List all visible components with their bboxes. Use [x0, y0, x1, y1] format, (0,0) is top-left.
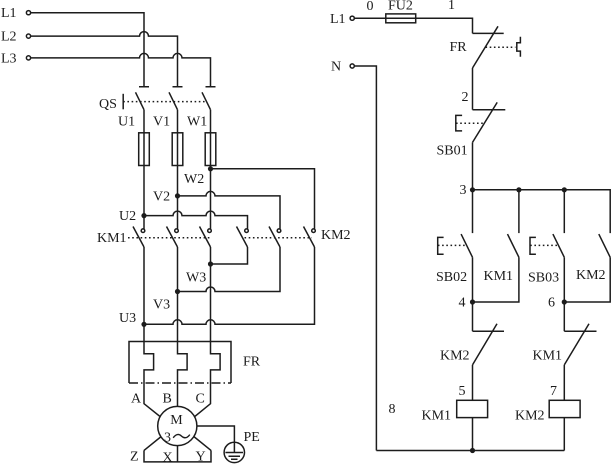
terminal L1 (control): [330, 12, 354, 27]
node V2: [153, 190, 180, 205]
svg-text:2: 2: [462, 90, 469, 105]
svg-text:KM1: KM1: [533, 348, 563, 363]
svg-text:U1: U1: [118, 115, 135, 130]
svg-text:Z: Z: [130, 449, 139, 464]
KM2 main contact pole 3: [304, 227, 316, 248]
wire SB01 to node 3: [472, 142, 474, 189]
motor skirt frame: [144, 450, 211, 462]
thermal relay FR heater box: [129, 342, 231, 384]
wire SB03 to node 6: [563, 257, 565, 302]
switch QS pole 1: [136, 87, 150, 110]
wire W2 to KM2 pole 3: [211, 169, 315, 229]
node W2: [184, 166, 213, 187]
node 4: [459, 295, 476, 310]
svg-text:PE: PE: [244, 430, 260, 445]
wire column V with FR heater jog straight to motor: [178, 247, 188, 462]
node 6: [548, 295, 567, 310]
terminal L1: [1, 6, 31, 21]
wire motor to PE earth: [197, 426, 235, 453]
wire KM2 NC to coil KM1: [472, 365, 474, 400]
node 3 bus wire: [473, 190, 611, 233]
svg-text:0: 0: [367, 0, 374, 14]
KM1 main contact pole 2: [167, 227, 179, 248]
wire L2 to column V (hop over column U): [31, 32, 178, 87]
terminal L2: [1, 30, 31, 45]
KM2 main contact pole 1: [237, 227, 249, 248]
wire column U with FR heater jog and lead to motor A: [144, 247, 170, 425]
svg-text:8: 8: [389, 402, 396, 417]
switch QS handle bar: [122, 94, 124, 110]
svg-text:V2: V2: [153, 190, 170, 205]
wire N down the left side: [354, 66, 376, 451]
contact KM1 aux (NO): [484, 190, 519, 284]
junction node 3: [470, 187, 475, 192]
svg-text:U3: U3: [119, 311, 136, 326]
svg-text:W3: W3: [186, 271, 206, 286]
svg-text:L2: L2: [1, 30, 17, 45]
KM1 main contact pole 1: [133, 227, 145, 248]
svg-text:4: 4: [459, 295, 466, 310]
pushbutton SB02 (NO): [436, 190, 473, 285]
svg-text:5: 5: [459, 384, 466, 399]
junction SB03 branch: [562, 187, 567, 192]
wire KM1 NC to coil KM2: [563, 365, 565, 400]
contactor KM2 linkage (dotted): [245, 237, 313, 239]
wire coil KM2 to N bus: [563, 418, 565, 451]
N bottom bus wire: [376, 450, 564, 452]
svg-text:SB02: SB02: [436, 270, 467, 285]
svg-text:KM2: KM2: [576, 268, 606, 283]
svg-text:KM1: KM1: [484, 269, 514, 284]
wire U2 to KM2 pole 1 (hops over columns V,W): [144, 211, 248, 229]
svg-text:L1: L1: [330, 12, 346, 27]
switch QS pole 2: [169, 87, 183, 110]
svg-text:L1: L1: [1, 6, 17, 21]
svg-text:1: 1: [448, 0, 455, 13]
svg-text:A: A: [131, 391, 142, 406]
contact KM2 aux (NO): [576, 234, 610, 283]
FR linkage (dotted): [486, 46, 516, 48]
svg-text:M: M: [170, 413, 183, 428]
FR trip element: [517, 37, 521, 57]
wire SB02 to node 4: [472, 257, 474, 302]
wire V2 to KM2 pole 2 (hop over column W): [178, 191, 281, 229]
pushbutton SB01 (NC): [437, 102, 506, 158]
svg-text:KM2: KM2: [321, 228, 351, 243]
KM1 main contact pole 3: [200, 227, 212, 248]
svg-text:W2: W2: [184, 172, 204, 187]
svg-text:L3: L3: [1, 51, 17, 66]
motor skirt lead Z: [144, 431, 168, 450]
switch QS linkage (dotted): [123, 101, 207, 103]
motor skirt lead Y: [187, 431, 211, 450]
contactor KM1 linkage (dotted): [128, 237, 211, 239]
wire L1 control to FR contact: [354, 18, 472, 33]
motor M 3~: [158, 406, 197, 445]
svg-text:7: 7: [550, 384, 557, 399]
svg-text:FU2: FU2: [388, 0, 413, 14]
KM2 main contact pole 2: [269, 227, 281, 248]
svg-text:X: X: [163, 450, 173, 464]
coil KM1: [422, 400, 488, 423]
svg-text:B: B: [163, 391, 172, 406]
svg-text:W1: W1: [187, 115, 207, 130]
svg-text:KM1: KM1: [422, 409, 452, 424]
fuse U1: [139, 133, 150, 166]
svg-text:SB01: SB01: [437, 144, 468, 159]
node V3: [153, 289, 180, 313]
junction KM1 aux branch: [516, 187, 521, 192]
coil KM2: [515, 400, 580, 423]
FR NC contact: [450, 26, 504, 68]
node U3: [119, 311, 147, 327]
svg-text:V3: V3: [153, 298, 170, 313]
wire column W through fuse to contact: [210, 110, 212, 229]
wire KM2 pole3 bottom to node U3 (hops over columns V,W): [144, 247, 315, 324]
contact KM1 interlock (NC): [533, 302, 597, 365]
svg-text:C: C: [196, 391, 205, 406]
svg-text:KM1: KM1: [97, 231, 127, 246]
svg-text:QS: QS: [99, 97, 117, 112]
junction bottom bus: [470, 448, 475, 453]
fuse V1: [172, 133, 183, 166]
FR heater box bottom (dash-dot): [129, 382, 231, 384]
svg-text:FR: FR: [243, 355, 261, 370]
switch QS pole 3: [202, 87, 216, 110]
pushbutton SB03 (NO): [528, 190, 564, 285]
wire KM1 aux to node 4: [473, 257, 519, 302]
wire FR to SB01: [472, 68, 474, 110]
wire L1 to column U: [31, 13, 144, 87]
wire KM2 pole2 bottom to node V3 (hop over column W): [178, 247, 281, 292]
svg-text:Y: Y: [196, 449, 206, 464]
terminal L3: [1, 51, 31, 66]
svg-text:6: 6: [548, 295, 555, 310]
svg-text:3: 3: [460, 183, 467, 198]
svg-text:V1: V1: [153, 115, 170, 130]
svg-text:3: 3: [164, 431, 171, 446]
terminal N: [331, 60, 354, 75]
svg-text:FR: FR: [450, 40, 468, 55]
node W3: [186, 261, 213, 285]
svg-text:KM2: KM2: [515, 409, 545, 424]
contact KM2 interlock (NC): [440, 302, 504, 365]
fuse W1: [205, 133, 216, 166]
wire coil KM1 to N bus: [472, 418, 474, 451]
wire column W with FR heater jog and lead to motor C: [185, 247, 220, 425]
svg-text:N: N: [331, 60, 341, 75]
fuse FU2: [386, 0, 416, 23]
earth PE symbol: [224, 430, 260, 463]
wire KM2 pole1 bottom to node W3: [211, 247, 248, 264]
wire column U through fuse to contact: [143, 110, 145, 229]
svg-text:SB03: SB03: [528, 270, 559, 285]
svg-text:U2: U2: [119, 209, 136, 224]
wire KM2 aux to node 6: [564, 257, 610, 302]
wire column V through fuse to contact: [177, 110, 179, 229]
svg-text:KM2: KM2: [440, 348, 470, 363]
node U2: [119, 209, 147, 224]
wire L3 to column W (hops over columns U,V): [31, 53, 211, 86]
